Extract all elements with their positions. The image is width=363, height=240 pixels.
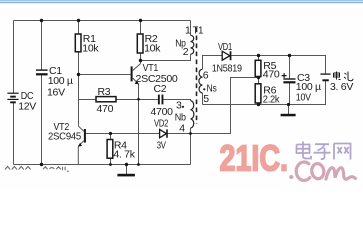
wire Np pin1 from rail bbox=[190, 21, 192, 36]
wire output bottom rail bbox=[203, 81, 326, 104]
transistor VT2 2SC945 bbox=[48, 121, 86, 165]
top blue border bbox=[0, 0, 363, 1]
svg-text:470: 470 bbox=[263, 68, 280, 80]
wire C3 top lead bbox=[289, 56, 291, 79]
wire Ns pin5 to output rail bbox=[202, 93, 204, 105]
wire R6 bottom lead bbox=[258, 103, 260, 105]
wire R6 top lead bbox=[258, 78, 260, 84]
svg-text:10V: 10V bbox=[296, 92, 311, 104]
junction dots bbox=[40, 19, 43, 22]
svg-text:10k: 10k bbox=[82, 42, 99, 54]
svg-text:6: 6 bbox=[203, 70, 209, 82]
torn text remnants bottom left bbox=[5, 167, 69, 172]
svg-text:R3: R3 bbox=[98, 86, 111, 98]
label 电池 bbox=[334, 72, 354, 81]
ground output bbox=[281, 114, 296, 117]
svg-text:VD2: VD2 bbox=[154, 117, 169, 129]
wire C2 left lead bbox=[139, 99, 158, 101]
svg-text:2SC945: 2SC945 bbox=[48, 131, 81, 143]
resistor R4 bbox=[107, 140, 113, 159]
svg-text:2: 2 bbox=[183, 46, 189, 58]
battery DC 12V bbox=[7, 90, 36, 112]
wire VT1 base bbox=[79, 74, 131, 76]
diode VD2 zener 3V bbox=[154, 117, 169, 151]
wire bottom rail bbox=[14, 164, 191, 166]
svg-text:21IC.: 21IC. bbox=[220, 138, 289, 179]
wire C2 right lead to Nb pin3 bbox=[163, 100, 190, 101]
svg-text:3. 6V: 3. 6V bbox=[330, 81, 353, 93]
watermark 电子网 bbox=[297, 142, 351, 160]
watermark 21IC bbox=[220, 138, 289, 179]
resistor R3 bbox=[96, 97, 116, 102]
svg-text:100 µ: 100 µ bbox=[48, 75, 73, 87]
capacitor C3 bbox=[282, 72, 321, 104]
transistor VT1 2SC2500 bbox=[131, 61, 178, 165]
svg-text:470: 470 bbox=[97, 103, 114, 115]
svg-text:12V: 12V bbox=[18, 100, 36, 112]
wire output ground stub bbox=[288, 105, 290, 115]
svg-text:3V: 3V bbox=[157, 139, 166, 151]
resistor R2 bbox=[137, 34, 143, 53]
transformer winding Nb bbox=[191, 101, 194, 128]
svg-text:VT1: VT1 bbox=[143, 62, 159, 74]
wire R3 right lead bbox=[116, 99, 139, 101]
svg-text:3: 3 bbox=[176, 99, 182, 111]
wire top rail bbox=[14, 20, 191, 22]
wire Ns pin6 to VD1 bbox=[203, 56, 223, 70]
svg-text:4: 4 bbox=[179, 123, 185, 135]
wire feedback VD2 line bbox=[86, 78, 259, 134]
ground main bbox=[117, 174, 134, 177]
capacitor C2 bbox=[151, 83, 174, 118]
wire R5 bottom lead bbox=[258, 77, 260, 78]
watermark .com script bbox=[289, 162, 355, 180]
wire Np pin2 to collector node bbox=[141, 54, 191, 60]
svg-text:2.2k: 2.2k bbox=[263, 93, 280, 105]
wire C1 branch upper bbox=[41, 21, 43, 70]
wire main ground stub bbox=[126, 165, 128, 175]
capacitor C1 bbox=[36, 65, 73, 99]
svg-text:1: 1 bbox=[185, 25, 191, 37]
svg-text:2SC2500: 2SC2500 bbox=[136, 73, 178, 85]
resistor R1 bbox=[75, 34, 81, 52]
wire VD1 to battery corner bbox=[231, 56, 325, 74]
wire node A down to VT2 collector bbox=[78, 75, 80, 126]
wire C3 bottom lead bbox=[289, 83, 291, 104]
transformer T1 core bbox=[196, 28, 198, 125]
wire R1 top lead bbox=[78, 21, 80, 35]
wire R1 bottom lead to node A bbox=[78, 52, 80, 75]
wire left branch to battery top bbox=[13, 21, 15, 93]
svg-text:4. 7k: 4. 7k bbox=[113, 148, 135, 160]
svg-text:16V: 16V bbox=[47, 87, 65, 99]
wire battery bottom to rail bbox=[13, 103, 15, 165]
wire R5 top lead bbox=[258, 56, 260, 61]
svg-text:1N5819: 1N5819 bbox=[212, 63, 242, 75]
wire R2 bottom lead bbox=[140, 53, 142, 61]
battery output 3.6V cell bbox=[320, 74, 330, 81]
svg-text:10k: 10k bbox=[144, 42, 161, 54]
svg-text:VD1: VD1 bbox=[218, 41, 232, 53]
resistor R5 bbox=[255, 60, 261, 76]
wire R2 top lead bbox=[140, 21, 142, 35]
transformer winding Np bbox=[191, 35, 194, 54]
resistor R6 bbox=[255, 84, 261, 103]
wire C1 branch lower bbox=[41, 75, 43, 164]
wire R4 bottom lead bbox=[110, 158, 112, 164]
svg-text:5: 5 bbox=[203, 93, 209, 105]
wire Nb pin4 down to bottom rail bbox=[190, 128, 192, 165]
wire R4 top lead bbox=[110, 134, 112, 140]
wire R3 left lead bbox=[79, 99, 97, 101]
diode VD1 1N5819 bbox=[212, 41, 242, 75]
svg-text:T1: T1 bbox=[193, 24, 204, 36]
transformer winding Ns bbox=[199, 69, 203, 93]
